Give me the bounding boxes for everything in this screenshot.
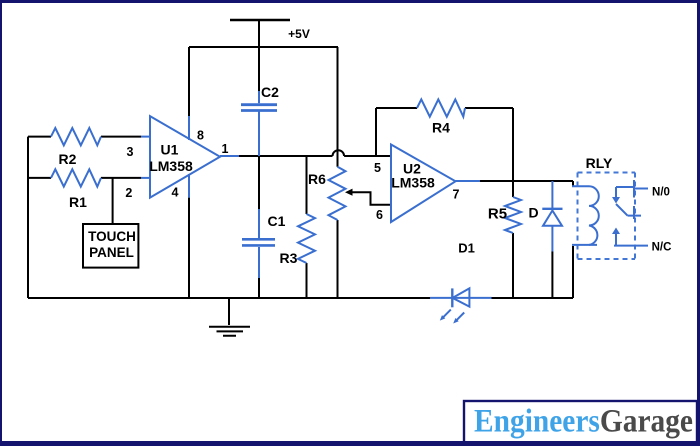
svg-text:D: D (529, 205, 539, 221)
svg-text:6: 6 (376, 208, 383, 222)
svg-text:PANEL: PANEL (89, 245, 134, 260)
svg-text:D1: D1 (458, 241, 475, 256)
svg-text:TOUCH: TOUCH (88, 229, 136, 244)
svg-text:5: 5 (374, 161, 381, 175)
svg-text:R1: R1 (69, 194, 87, 210)
svg-text:2: 2 (125, 186, 132, 200)
svg-text:LM358: LM358 (149, 158, 193, 174)
svg-text:7: 7 (453, 188, 460, 202)
svg-text:N/C: N/C (652, 242, 672, 254)
svg-text:8: 8 (197, 129, 204, 143)
svg-text:+5V: +5V (288, 27, 310, 41)
svg-text:R3: R3 (280, 250, 298, 266)
svg-text:N/0: N/0 (652, 187, 670, 199)
svg-text:R4: R4 (432, 120, 450, 136)
svg-text:4: 4 (172, 186, 179, 200)
svg-text:RLY: RLY (586, 155, 613, 171)
svg-text:R6: R6 (308, 171, 326, 187)
svg-text:U1: U1 (161, 142, 179, 158)
svg-text:3: 3 (127, 145, 134, 159)
svg-text:R2: R2 (59, 151, 77, 167)
svg-text:LM358: LM358 (391, 175, 435, 191)
svg-text:R5: R5 (488, 206, 507, 223)
svg-text:EngineersGarage: EngineersGarage (474, 404, 693, 440)
svg-text:1: 1 (222, 142, 229, 156)
svg-text:C1: C1 (268, 213, 286, 229)
svg-text:C2: C2 (261, 84, 279, 100)
